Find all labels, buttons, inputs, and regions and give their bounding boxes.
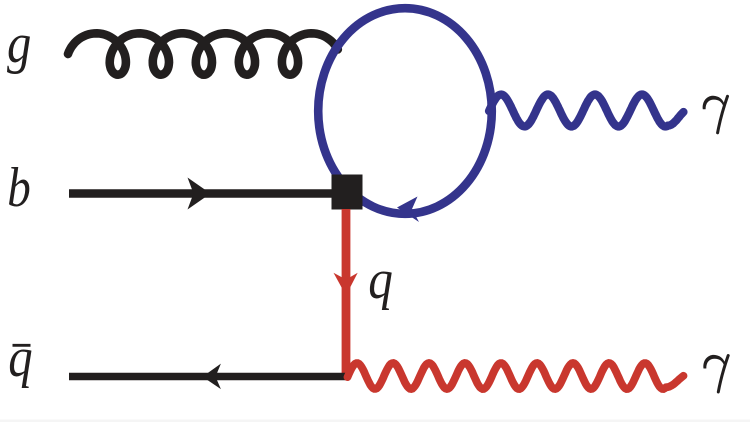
qbar arrow (pointing left) — [203, 364, 221, 390]
photon wave gamma (blue, upper right) — [489, 95, 684, 127]
label gamma (upper right) — [703, 96, 728, 133]
svg-text:q: q — [8, 327, 32, 389]
gluon line g — [68, 33, 338, 74]
antiquark line qbar — [69, 373, 347, 381]
photon wave gamma (red, lower right) — [348, 363, 684, 389]
effective vertex (black square) — [332, 175, 363, 210]
svg-text:q: q — [368, 249, 393, 311]
qbar overbar — [13, 344, 31, 347]
loop arrow (fermion flow, pointing left) — [397, 197, 419, 223]
svg-text:g: g — [7, 13, 31, 75]
bottom page edge strip — [0, 420, 750, 422]
q arrow (pointing down) — [334, 273, 358, 296]
svg-text:b: b — [7, 157, 31, 219]
b quark arrow (pointing right) — [188, 178, 211, 210]
internal quark line q (red, vertical) — [342, 209, 351, 377]
b quark line — [69, 189, 333, 198]
fermion loop (blue ellipse) — [318, 8, 492, 214]
label gamma (lower right) — [703, 355, 728, 392]
